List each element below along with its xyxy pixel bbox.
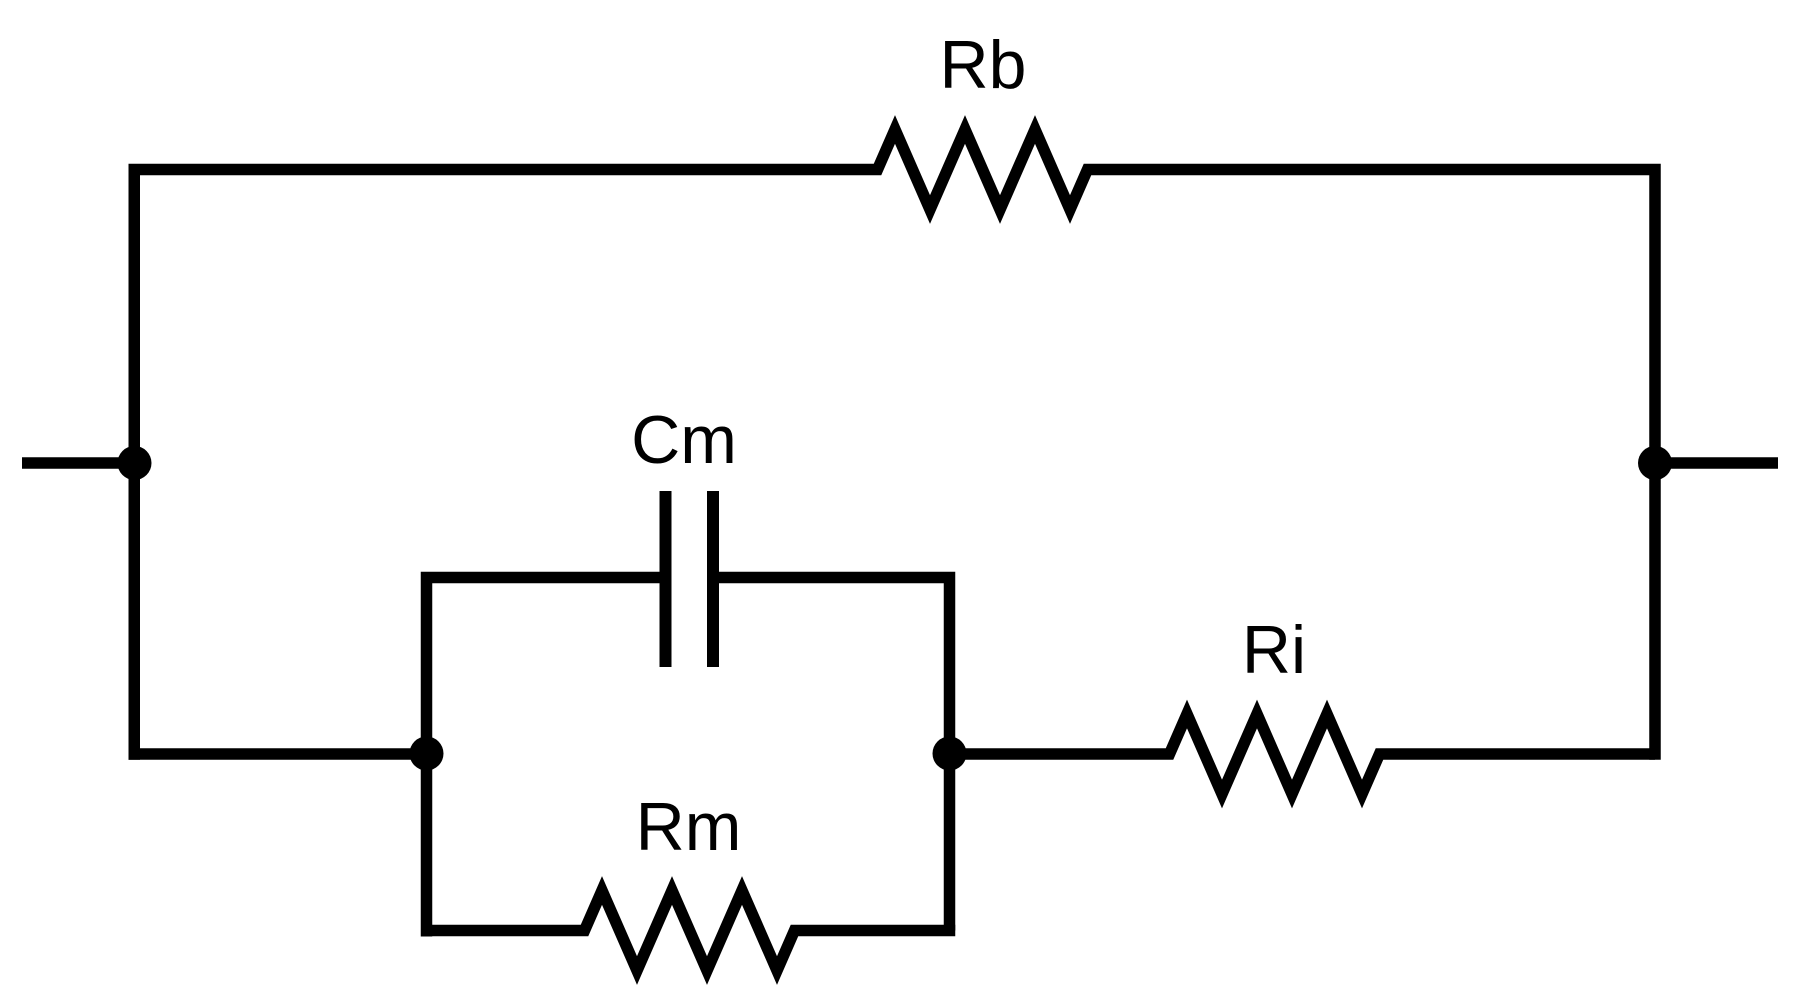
svg-text:Rb: Rb [940, 27, 1027, 103]
wire inner box left vertical and top-left segment [427, 578, 660, 937]
capacitor Cm left plate [660, 491, 672, 667]
node inner box right junction dot [933, 737, 967, 771]
svg-text:Ri: Ri [1242, 612, 1306, 688]
wire bottom-left branch to inner box [129, 748, 428, 760]
wire left vertical riser, top wire and right vertical with resistor Rb [134, 130, 1655, 760]
node right junction dot [1638, 446, 1672, 480]
wire right output terminal [1655, 457, 1778, 469]
wire left input terminal [22, 457, 140, 469]
svg-text:Rm: Rm [636, 789, 742, 865]
resistor Rm on inner box bottom wire [427, 891, 956, 971]
node left junction dot [118, 446, 152, 480]
capacitor Cm right plate [707, 491, 719, 667]
node inner box left junction dot [410, 737, 444, 771]
wire inner box top-right segment and right vertical [719, 578, 950, 931]
svg-text:Cm: Cm [631, 402, 737, 478]
resistor Ri wire from box right node to right vertical [950, 714, 1656, 794]
